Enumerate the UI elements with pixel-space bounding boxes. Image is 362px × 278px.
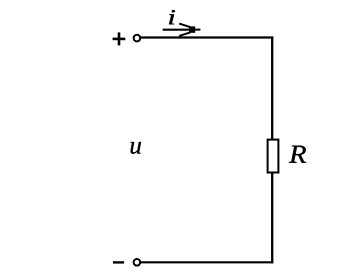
- current label i: [169, 10, 175, 24]
- node: bottom-left open terminal circle: [134, 259, 141, 266]
- wire: right vertical lower segment: [271, 173, 273, 264]
- minus sign (- terminal polarity mark): [113, 261, 124, 263]
- wire: right vertical upper segment: [271, 37, 273, 141]
- voltage label u: [131, 142, 141, 154]
- node: top-left open terminal circle: [134, 35, 141, 42]
- wire: bottom horizontal from - terminal to bottom-right corner: [141, 261, 274, 263]
- current direction arrow: [163, 24, 201, 36]
- label R: [289, 146, 306, 163]
- plus sign (+ terminal polarity mark): [113, 32, 126, 45]
- resistor R (rectangle body): [268, 140, 279, 173]
- wire: top horizontal from + terminal to top-right corner: [141, 36, 274, 38]
